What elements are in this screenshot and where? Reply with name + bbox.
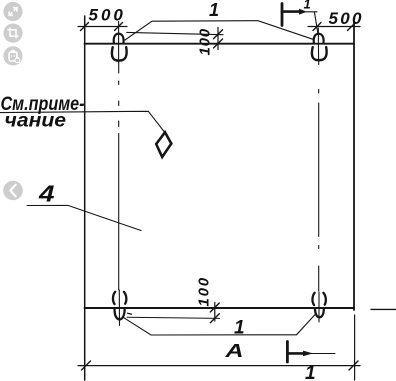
svg-text:100: 100 bbox=[196, 276, 213, 306]
svg-text:1: 1 bbox=[234, 318, 245, 339]
svg-text:500: 500 bbox=[329, 9, 364, 28]
svg-text:500: 500 bbox=[89, 6, 126, 25]
svg-text:100: 100 bbox=[197, 28, 214, 55]
svg-text:1: 1 bbox=[304, 0, 311, 12]
svg-text:чание: чание bbox=[5, 111, 67, 132]
svg-text:1: 1 bbox=[209, 0, 219, 20]
svg-text:1: 1 bbox=[305, 363, 316, 381]
svg-text:4: 4 bbox=[38, 181, 55, 207]
svg-text:А: А bbox=[224, 341, 243, 361]
